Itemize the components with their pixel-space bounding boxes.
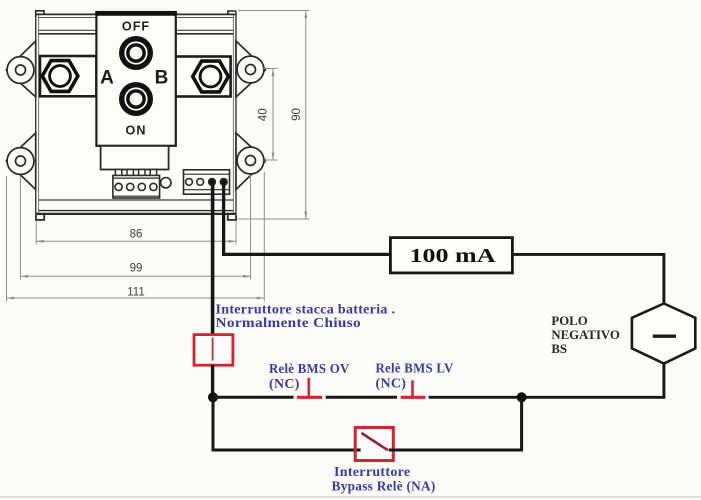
right foot: [228, 215, 236, 220]
hex nut terminal B: [193, 61, 229, 92]
knob OFF: [119, 36, 153, 70]
svg-text:90: 90: [291, 108, 303, 121]
wire from switch to junction: [211, 365, 214, 398]
terminal plate A (left): [40, 56, 96, 96]
battery negative pole symbol (hexagon): [632, 304, 695, 364]
svg-text:POLO: POLO: [551, 314, 587, 328]
contact Rele BMS OV (NC): [297, 378, 322, 399]
svg-text:BS: BS: [551, 342, 567, 356]
bypass branch wire right: [389, 397, 522, 450]
svg-text:B: B: [155, 68, 169, 89]
svg-text:Relè BMS OV: Relè BMS OV: [269, 362, 350, 377]
faint scan artifact line at bottom: [0, 496, 701, 498]
dimension 99: [21, 175, 251, 280]
svg-text:ON: ON: [126, 124, 147, 138]
wire from connector pin 4 down then right to fuse: [224, 182, 391, 254]
switch Interruttore Bypass Rele (NA): [355, 428, 393, 461]
junction right: [517, 392, 527, 402]
junction left: [208, 392, 218, 402]
switch stacca batteria (NC) red box: [194, 335, 233, 366]
svg-text:(NC): (NC): [269, 377, 300, 392]
terminal block left: [113, 175, 160, 198]
connector pins row: [115, 170, 156, 176]
svg-text:Relè BMS LV: Relè BMS LV: [376, 362, 454, 377]
fuse 100 mA: [390, 238, 512, 273]
bottom rail wire segment 1: [213, 396, 294, 399]
terminal plate B (right): [175, 57, 231, 97]
dimension 40: [258, 69, 278, 161]
svg-text:100 mA: 100 mA: [410, 246, 496, 267]
svg-text:86: 86: [130, 229, 143, 241]
bypass branch wire left: [213, 397, 361, 450]
svg-text:111: 111: [127, 286, 144, 298]
label Interruttore stacca batteria: [216, 303, 396, 332]
mounting ear top-left: [7, 41, 36, 97]
screw hole next to terminal block: [161, 178, 171, 188]
dimension 86: [36, 221, 236, 245]
knob ON: [119, 82, 153, 116]
bottom rail: [36, 200, 236, 214]
svg-text:(NC): (NC): [376, 377, 407, 392]
label Interruttore Bypass Rele (NA): [332, 465, 436, 494]
svg-text:NEGATIVO: NEGATIVO: [551, 328, 620, 342]
wire from connector pin 3 down to stacca-batteria switch: [211, 182, 215, 335]
label POLO NEGATIVO BS: [551, 314, 620, 356]
svg-text:OFF: OFF: [122, 20, 150, 34]
wire from fuse to battery negative pole: [512, 254, 664, 305]
sub panel below control panel: [101, 146, 169, 170]
contact Rele BMS LV (NC): [401, 380, 426, 398]
left foot: [36, 215, 44, 220]
top rail: [36, 11, 236, 34]
label Rele BMS OV (NC): [269, 362, 350, 392]
dimension 90: [238, 11, 310, 220]
wire from battery pole down to bottom rail: [429, 363, 664, 398]
svg-text:Normalmente Chiuso: Normalmente Chiuso: [216, 316, 362, 331]
svg-text:Interruttore: Interruttore: [334, 465, 410, 480]
dimension 111: [7, 172, 265, 302]
control panel: [95, 12, 176, 146]
svg-text:99: 99: [130, 263, 143, 275]
mounting ear bottom-right: [236, 133, 265, 190]
svg-text:A: A: [100, 68, 114, 89]
mounting ear top-right: [236, 41, 265, 97]
mounting ear bottom-left: [7, 133, 36, 190]
svg-text:40: 40: [258, 108, 270, 121]
label Rele BMS LV (NC): [376, 362, 454, 392]
svg-text:Bypass Relè (NA): Bypass Relè (NA): [332, 480, 436, 495]
battery switch device body outline: [36, 11, 236, 215]
bottom rail wire segment 2: [326, 396, 397, 399]
hex nut terminal A: [42, 61, 78, 92]
connector block right (control connector): [184, 170, 230, 194]
